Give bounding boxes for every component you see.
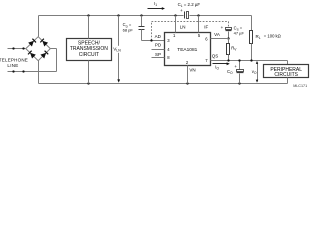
svg-text:+: +	[221, 25, 224, 30]
svg-text:PD: PD	[155, 43, 162, 48]
svg-text:IF: IF	[204, 25, 208, 30]
svg-text:VA: VA	[214, 32, 220, 37]
svg-text:MLC171: MLC171	[293, 84, 307, 88]
svg-text:SP: SP	[155, 52, 161, 57]
svg-text:+: +	[234, 64, 237, 69]
svg-text:CIRCUIT: CIRCUIT	[79, 52, 99, 58]
svg-text:LINE: LINE	[7, 63, 18, 68]
svg-text:LN: LN	[180, 25, 186, 30]
svg-text:TRANSMISSION: TRANSMISSION	[70, 46, 108, 52]
svg-text:+: +	[180, 8, 183, 13]
svg-text:VN: VN	[189, 68, 195, 73]
svg-text:CIRCUITS: CIRCUITS	[274, 72, 298, 78]
svg-text:QS: QS	[212, 54, 219, 59]
svg-text:TELEPHONE: TELEPHONE	[0, 58, 28, 63]
svg-text:AD: AD	[155, 34, 162, 39]
svg-text:= 100 kΩ: = 100 kΩ	[264, 34, 281, 39]
svg-text:TEA1081: TEA1081	[177, 47, 197, 53]
svg-text:68 pF: 68 pF	[123, 27, 134, 32]
svg-text:47 µF: 47 µF	[234, 30, 245, 35]
